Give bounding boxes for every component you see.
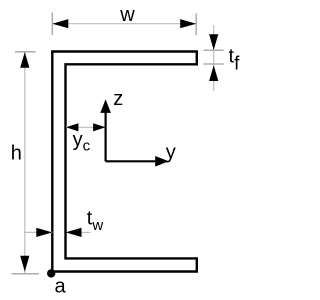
dimension tw tail line right (82, 231, 91, 233)
label yc (73, 129, 91, 155)
dimension tf extension tick bottom (204, 63, 224, 65)
label y (166, 141, 176, 163)
label a (55, 275, 67, 297)
dimension h line (24, 52, 26, 274)
z axis (100, 99, 111, 161)
dimension w extension line left (51, 13, 53, 36)
svg-text:yc: yc (73, 129, 91, 155)
dimension tw tail line left (24, 231, 52, 233)
dimension w line (52, 23, 196, 25)
svg-text:z: z (113, 88, 123, 110)
dimension yc arrowhead left (66, 123, 79, 131)
dimension h arrowhead bottom (20, 256, 29, 272)
dimension w arrowhead left (52, 19, 68, 28)
dimension tw arrowhead right (66, 228, 82, 237)
svg-text:h: h (11, 143, 22, 165)
label tw (87, 208, 104, 234)
dimension w arrowhead right (180, 19, 196, 28)
dimension h extension tick top (15, 51, 36, 53)
dimension tf vertical line (213, 25, 215, 91)
dimension tw arrowhead left (36, 228, 52, 237)
dimension yc line (66, 126, 106, 128)
svg-text:y: y (166, 141, 176, 163)
dimension tf arrowhead upper (209, 34, 218, 50)
dimension yc arrowhead right (93, 123, 106, 131)
dimension tf extension tick top (204, 49, 224, 51)
y axis (106, 156, 169, 167)
svg-text:a: a (55, 275, 67, 297)
svg-text:tw: tw (87, 208, 104, 234)
label w (119, 4, 135, 26)
channel section outline (52, 52, 197, 272)
dimension w extension line right (195, 14, 197, 36)
svg-text:tf: tf (229, 46, 241, 75)
dimension h extension tick bottom (12, 273, 40, 275)
svg-text:w: w (119, 4, 135, 26)
dimension h arrowhead top (20, 52, 29, 68)
point a marker (47, 269, 55, 277)
label z (113, 88, 123, 110)
label tf (229, 46, 241, 75)
dimension tf arrowhead lower (209, 65, 218, 81)
label h (11, 143, 22, 165)
